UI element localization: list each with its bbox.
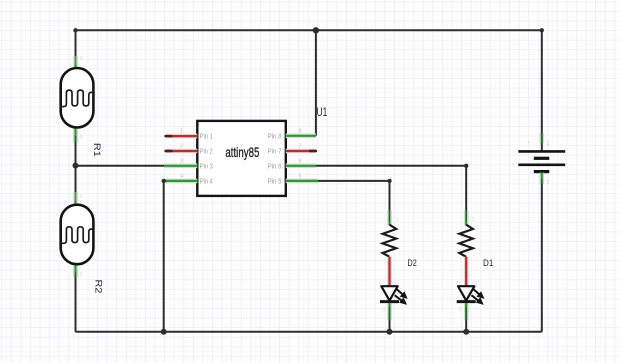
svg-text:Pin 5: Pin 5 xyxy=(268,176,282,185)
svg-text:U1: U1 xyxy=(317,107,328,119)
wire: pin6 to D1 branch xyxy=(316,166,466,210)
bendpoint: top-left corner xyxy=(73,28,77,32)
wire: left rail xyxy=(75,30,77,332)
wire: pin5 to D2 branch xyxy=(316,181,390,210)
wire: D1 branch verticals xyxy=(465,300,467,332)
LED D2 xyxy=(380,286,407,304)
battery pin leg top (green halo under black wire) xyxy=(541,133,543,151)
bendpoint: pin5 corner xyxy=(387,179,391,183)
wire: node to pin3 xyxy=(76,165,167,167)
D1 red wire xyxy=(464,257,469,286)
pin 1 stub (red) xyxy=(166,134,198,139)
svg-text:7: 7 xyxy=(298,144,301,150)
svg-text:6: 6 xyxy=(298,158,301,164)
LED D1 xyxy=(457,286,484,304)
battery BAT1 xyxy=(518,151,565,171)
battery pin leg bottom (green halo under black wire) xyxy=(539,173,544,185)
pin 5 stub (green) xyxy=(286,179,318,184)
svg-text:Pin 2: Pin 2 xyxy=(200,147,213,156)
junction node: bottom rail D2 xyxy=(387,329,393,335)
svg-text:+: + xyxy=(527,140,530,146)
pin 8 stub (green) xyxy=(286,134,316,139)
junction node: left rail between R1 R2 xyxy=(73,163,79,169)
D2 pin leg bottom xyxy=(387,303,392,321)
svg-text:2: 2 xyxy=(80,272,83,278)
svg-text:1: 1 xyxy=(472,217,475,223)
wire: top rail xyxy=(76,29,542,31)
resistor (D2 branch) xyxy=(383,225,397,257)
svg-text:Pin 6: Pin 6 xyxy=(268,161,282,170)
D1 pin leg bottom xyxy=(464,303,469,321)
resistor (D1 branch) xyxy=(459,225,473,257)
wire: bottom rail xyxy=(76,331,542,333)
svg-text:2: 2 xyxy=(383,307,386,313)
svg-text:R2: R2 xyxy=(94,280,105,294)
pin 7 stub (red) xyxy=(286,149,316,154)
svg-text:1: 1 xyxy=(546,141,549,147)
green pin legs: left rail around LDRs (black wire over green halo) xyxy=(73,56,78,278)
tiny pin marks near component legs xyxy=(80,56,475,313)
svg-text:2: 2 xyxy=(459,307,462,313)
svg-text:Pin 3: Pin 3 xyxy=(200,161,213,170)
pin 4 stub (green) xyxy=(164,179,198,184)
svg-text:Pin 1: Pin 1 xyxy=(200,132,213,141)
svg-text:8: 8 xyxy=(298,128,301,134)
junction node: top rail / U1 wire xyxy=(313,27,319,33)
LDR R1 xyxy=(61,68,94,128)
D2 red wire xyxy=(387,257,392,286)
svg-text:2: 2 xyxy=(80,135,83,141)
svg-text:1: 1 xyxy=(180,129,183,135)
svg-text:1: 1 xyxy=(80,194,83,200)
wire: U1 pin8 to top rail xyxy=(315,30,317,136)
svg-text:Pin 4: Pin 4 xyxy=(200,176,213,185)
IC U1 attiny85 xyxy=(197,121,285,196)
svg-text:1: 1 xyxy=(396,217,399,223)
wire: D2 branch verticals xyxy=(389,300,391,332)
svg-text:Pin 8: Pin 8 xyxy=(268,132,282,141)
svg-text:D2: D2 xyxy=(408,258,417,269)
bendpoint: top-right corner xyxy=(540,28,544,32)
bendpoint: pin6 corner xyxy=(464,164,468,168)
D1 branch pin leg top xyxy=(464,210,469,226)
svg-text:Pin 7: Pin 7 xyxy=(268,147,282,156)
bendpoint: pin4 corner xyxy=(162,179,166,183)
pin 2 stub (red) xyxy=(166,149,198,154)
LDR R2 xyxy=(61,205,94,265)
junction node: bottom rail pin4 wire xyxy=(161,329,167,335)
battery tiny terminal labels xyxy=(527,140,549,186)
svg-text:1: 1 xyxy=(80,56,83,62)
svg-text:5: 5 xyxy=(298,173,301,179)
svg-text:3: 3 xyxy=(180,158,183,164)
pin 6 stub (green) xyxy=(286,164,316,169)
D2 branch pin leg top xyxy=(387,210,392,226)
svg-text:4: 4 xyxy=(180,173,183,179)
svg-text:2: 2 xyxy=(180,144,183,150)
svg-text:R1: R1 xyxy=(92,143,103,157)
wire: pin4 down to bottom rail xyxy=(163,181,165,332)
wire: right rail (battery branch) xyxy=(541,30,543,140)
pin 3 stub (green) xyxy=(164,164,197,169)
svg-text:attiny85: attiny85 xyxy=(225,145,259,160)
svg-text:2: 2 xyxy=(546,180,549,186)
svg-text:D1: D1 xyxy=(483,258,493,269)
junction node: bottom rail D1 xyxy=(463,329,469,335)
svg-text:-: - xyxy=(528,180,530,186)
pin numbers (tiny gray) xyxy=(180,128,302,179)
